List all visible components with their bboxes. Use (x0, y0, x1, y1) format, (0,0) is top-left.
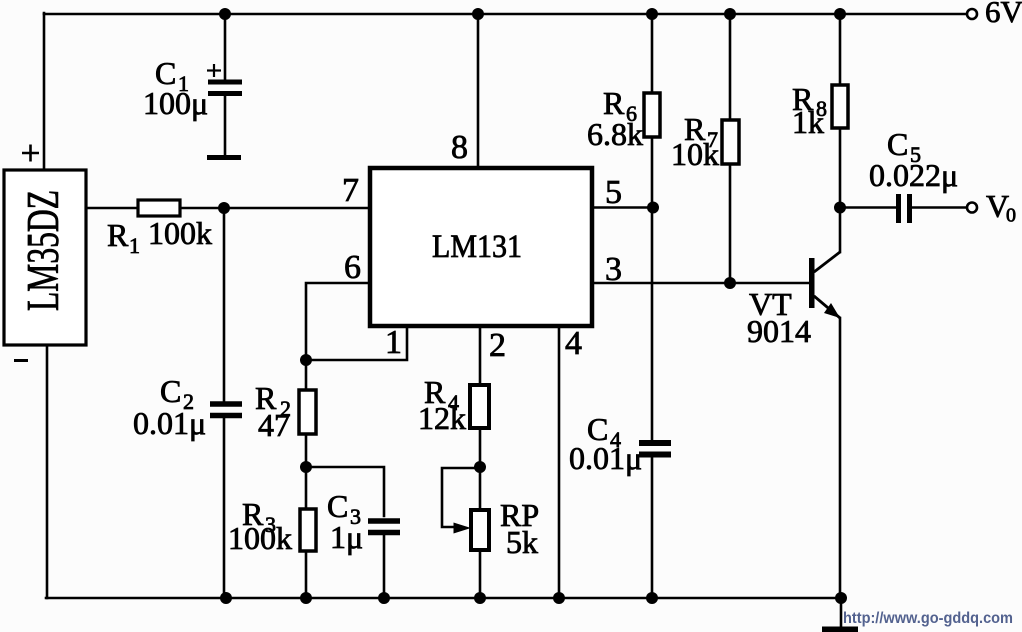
svg-text:8: 8 (451, 129, 468, 166)
wire: R6/C4 column from supply rail to ground rail (651, 14, 654, 598)
svg-text:LM131: LM131 (432, 229, 522, 265)
wire: left drop from rail to LM35DZ top (43, 13, 46, 170)
svg-text:10k: 10k (671, 136, 719, 172)
wire: collector lead down from node (839, 208, 842, 253)
label R1 (107, 215, 212, 258)
wire: R2-R3 node over to C3 (306, 467, 384, 516)
wire: pin 5 lead to R6 column (592, 206, 653, 209)
label 6V (985, 0, 1022, 29)
svg-text:1μ: 1μ (330, 519, 363, 555)
capacitor C2 (210, 404, 242, 416)
wire: R1 horizontal lead from LM35DZ to pin 7 (86, 207, 370, 210)
junction: pin 6 / pin 1 / R2 node (300, 354, 312, 366)
capacitor C5 (899, 194, 910, 223)
wire: emitter column down to ground rail (839, 318, 842, 598)
ground symbol (822, 627, 858, 632)
label C3 (327, 488, 363, 555)
resistor R1 body (138, 200, 180, 216)
svg-text:LM35DZ: LM35DZ (18, 190, 68, 311)
svg-text:47: 47 (258, 407, 290, 443)
capacitor C3 (368, 521, 400, 533)
junction: R6 at supply rail (646, 8, 658, 20)
wire: C1 top lead (224, 14, 227, 80)
svg-text:100k: 100k (228, 520, 292, 556)
junction: C4 at ground rail (646, 592, 658, 604)
junction: RP at ground rail (474, 592, 486, 604)
label R2 (255, 380, 291, 443)
wire: pin 4 lead down to ground rail (558, 326, 561, 598)
junction: collector / R8 / C5 node (834, 202, 846, 214)
svg-text:R: R (107, 217, 129, 253)
label C1 (143, 55, 208, 121)
wire: R8 column from supply rail to collector node (839, 14, 842, 208)
svg-text:7: 7 (342, 172, 359, 209)
label C4 (569, 411, 642, 476)
resistor R2 body (299, 390, 316, 434)
junction: pin 5 / R6 node (647, 202, 659, 214)
svg-text:http://www.go-gddq.com: http://www.go-gddq.com (843, 610, 1013, 627)
resistor R6 body (644, 93, 660, 137)
transistor VT (NPN 9014) (809, 252, 840, 318)
terminal: +6V supply (967, 9, 977, 19)
label: C1 plus sign (207, 64, 221, 77)
wire: bottom ground rail (46, 597, 841, 600)
svg-text:0.01μ: 0.01μ (133, 405, 206, 441)
label RP (500, 497, 539, 560)
wire: LM35DZ bottom lead down to ground rail (46, 345, 49, 598)
potentiometer RP wiper arrowhead (454, 523, 472, 534)
junction: R4 / RP wiper node (474, 461, 486, 473)
label R4 (418, 374, 466, 436)
wire: C3 bottom lead (383, 534, 386, 598)
wire: pin 6 lead left and down to R2 node (306, 283, 370, 360)
svg-text:6.8k: 6.8k (587, 116, 643, 152)
svg-text:12k: 12k (418, 400, 466, 436)
wire: pin 2 lead down through R4 and RP to ground rail (479, 326, 482, 598)
junction: R7 at supply rail (724, 8, 736, 20)
label R6 (587, 85, 643, 152)
wire: C1 bottom lead (224, 96, 227, 155)
terminal: V0 output (967, 203, 977, 213)
svg-text:0.01μ: 0.01μ (569, 440, 642, 476)
svg-text:5: 5 (605, 174, 622, 211)
pin label 8 (451, 129, 468, 166)
label R8 (792, 81, 827, 140)
pin label 5 (605, 174, 622, 211)
pin label 4 (565, 325, 582, 362)
svg-text:0.022μ: 0.022μ (869, 157, 958, 193)
pin label 2 (489, 327, 506, 364)
label VT 9014 (747, 286, 811, 349)
pin label 3 (605, 251, 622, 288)
wire: RP wiper arm (442, 468, 480, 527)
label: LM35DZ - terminal (14, 359, 28, 362)
svg-text:1: 1 (129, 233, 140, 258)
junction: emitter at ground rail (835, 592, 847, 604)
wire: ground stub below rail (840, 598, 843, 627)
pin label 6 (344, 249, 361, 286)
svg-text:1k: 1k (792, 104, 824, 140)
svg-text:100μ: 100μ (143, 85, 208, 121)
wire: pin 1 lead down and left to R2 node (306, 326, 407, 360)
svg-text:5k: 5k (506, 524, 538, 560)
IC U1 LM131 (370, 168, 592, 326)
sensor U2 LM35DZ (4, 170, 86, 345)
junction: R3 at ground rail (300, 592, 312, 604)
capacitor C4 (639, 443, 671, 455)
wire: pin 8 lead to supply rail (477, 14, 480, 168)
capacitor C1 bottom end bar (207, 155, 241, 160)
wire: C2 column from R1 node down to ground rail (223, 208, 226, 598)
junction: R2 / R3 / C3 node (300, 461, 312, 473)
label V0 (986, 188, 1016, 227)
svg-text:4: 4 (565, 325, 582, 362)
wire: +6V top supply rail (44, 13, 967, 16)
label R3 (228, 496, 292, 556)
junction: C1 at supply rail (219, 8, 231, 20)
svg-text:C: C (160, 373, 181, 409)
label C2 (133, 373, 206, 441)
resistor R3 body (300, 509, 316, 551)
svg-text:9014: 9014 (747, 313, 811, 349)
svg-text:3: 3 (605, 251, 622, 288)
wire: pin 3 lead to transistor base (592, 282, 809, 285)
potentiometer RP body (471, 510, 489, 550)
wire: collector node to C5 (840, 206, 896, 209)
capacitor C1 (polarized) (208, 82, 242, 94)
svg-text:100k: 100k (148, 215, 212, 251)
svg-text:6: 6 (344, 249, 361, 286)
svg-text:2: 2 (489, 327, 506, 364)
junction: pin 8 at supply rail (472, 8, 484, 20)
svg-text:0: 0 (1006, 205, 1016, 227)
label: LM35DZ + terminal (22, 145, 39, 162)
resistor R4 body (470, 385, 489, 428)
pin label 1 (385, 324, 402, 361)
watermark http://www.go-gddq.com (843, 610, 1013, 627)
resistor R8 body (832, 85, 848, 128)
svg-text:6V: 6V (985, 0, 1022, 29)
junction: C3 at ground rail (378, 592, 390, 604)
wire: R7 column from supply rail to pin 3 node (729, 14, 732, 283)
junction: R1 / C2 / pin 7 node (218, 202, 230, 214)
wire: R2/R3 column (305, 360, 308, 598)
pin label 7 (342, 172, 359, 209)
junction: pin 4 at ground rail (553, 592, 565, 604)
wire: C5 to V0 terminal (912, 206, 966, 209)
resistor R7 body (722, 120, 739, 164)
junction: R8 at supply rail (834, 8, 846, 20)
junction: C2 at ground rail (220, 592, 232, 604)
junction: R7 / pin 3 node (724, 277, 736, 289)
label C5 (869, 126, 958, 193)
svg-text:1: 1 (385, 324, 402, 361)
label R7 (671, 111, 719, 172)
